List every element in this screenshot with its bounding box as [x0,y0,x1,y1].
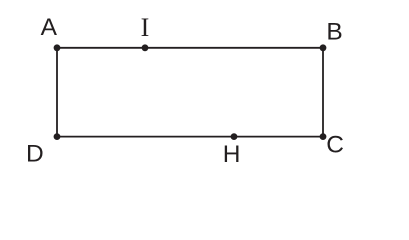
svg-text:B: B [326,19,342,46]
node A [54,44,61,51]
wire DC (bottom edge) [57,136,323,138]
node I [142,44,149,51]
node H [231,133,238,140]
wire AD (left edge) [56,48,58,137]
svg-text:I: I [141,13,150,42]
node D [54,133,61,140]
wire AB (top edge) [57,47,323,49]
node B [320,44,327,51]
svg-text:A: A [41,14,58,41]
svg-text:D: D [26,141,44,168]
svg-text:C: C [326,132,344,159]
node C [320,133,327,140]
svg-text:H: H [223,141,241,168]
wire BC (right edge) [322,48,324,137]
